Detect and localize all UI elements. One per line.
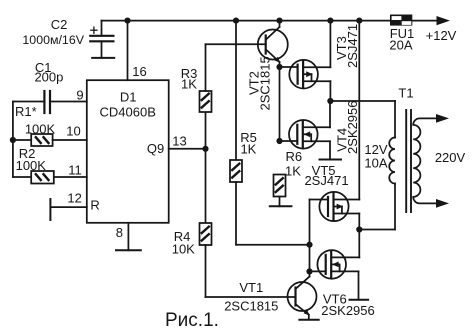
wire VT5 source to rail [358,21,360,200]
ground pin 8 [116,249,141,251]
wire VT6 gate [310,270,326,272]
resistor R4 [200,149,212,297]
label R2 value [16,146,82,178]
junction rail/R5 [233,18,239,24]
wire VT5 drain down [358,214,360,230]
svg-text:R6: R6 [285,149,302,164]
capacitor C1 [44,91,50,113]
label VT3 [334,24,360,68]
label R5 value [240,130,257,157]
svg-text:R: R [90,198,99,213]
transistor VT2 2SC1815 [258,21,288,141]
MOSFET VT3 2SJ471 [289,60,330,89]
wire C1 left to rail [13,101,45,103]
label C1 value [34,60,63,85]
wire VT3 drain down [329,81,331,101]
label VT1 [224,280,278,314]
svg-text:C2: C2 [51,17,68,32]
wire pin 16 [127,21,129,81]
ground R6 [270,205,292,207]
ground VT4 [320,159,342,161]
junction rail/VT2 collector [276,18,282,24]
wire pin 8 [127,223,129,251]
wire gate feed line [309,200,311,277]
wire +12V rail [102,20,391,22]
svg-text:2SK2956: 2SK2956 [345,101,360,155]
transistor VT1 2SC1815 [288,277,317,320]
label VT2 [247,56,273,110]
junction VT3 gate [276,64,282,70]
capacitor C2 [90,21,113,58]
junction rail/VT3 [327,18,333,24]
wire VT2 base [206,43,266,45]
svg-text:11: 11 [68,163,82,178]
svg-text:VT1: VT1 [239,280,263,295]
wire drain node to T1 primary bottom [359,229,395,231]
label VT4 [335,101,361,155]
svg-text:R1*: R1* [15,104,37,119]
ground bar pin 12 [49,199,51,220]
wire VT4 drain up [329,101,331,127]
svg-text:100K: 100K [25,122,56,137]
svg-text:10: 10 [66,123,80,138]
wire pin 12 [50,206,86,208]
junction R5/collector line [306,242,312,248]
svg-text:9: 9 [76,87,83,102]
wire VT6 drain up [358,230,360,258]
svg-text:T1: T1 [398,86,413,101]
svg-text:100K: 100K [16,158,47,173]
svg-text:Рис.1.: Рис.1. [165,310,219,331]
junction VT3/VT4 drains [327,98,333,104]
svg-text:2SC1815: 2SC1815 [258,56,273,110]
junction node Q9 [202,146,208,152]
svg-text:1K: 1K [240,142,256,157]
label R4 value [172,229,195,257]
IC D1 CD4060B [87,80,169,223]
resistor R2 [13,171,87,184]
wire drain node to T1 primary top [330,100,395,102]
ground VT1 [299,319,318,321]
label VT5 [304,163,348,188]
svg-text:1000м/16V: 1000м/16V [22,33,84,47]
ground C2 [92,57,114,59]
svg-text:16: 16 [132,64,146,79]
node +12V arrow [437,16,451,25]
svg-text:Q9: Q9 [147,141,164,156]
svg-text:220V: 220V [435,150,466,165]
svg-text:200p: 200p [34,70,63,85]
label T1 values [364,86,465,171]
svg-text:12: 12 [67,191,81,206]
junction rail/pin16 [124,18,130,24]
MOSFET VT5 2SJ471 [319,192,359,221]
svg-text:2SC1815: 2SC1815 [224,299,278,314]
wire Q9 pin 13 [169,148,206,150]
wire VT3 source to rail [329,21,331,68]
wire VT4 source down [329,141,331,159]
wire VT5 gate [310,199,329,201]
label FU1 value [389,26,456,53]
junction VT5/VT6 drains [356,226,362,232]
svg-text:CD4060B: CD4060B [100,105,156,120]
junction left rail / R1 [10,137,16,143]
svg-text:2SJ471: 2SJ471 [304,173,348,188]
label VT6 [321,292,375,319]
junction rail/VT5 [356,18,362,24]
svg-text:8: 8 [116,225,123,240]
svg-text:D1: D1 [120,90,137,105]
svg-text:10K: 10K [172,242,195,257]
fuse FU1 [390,15,412,26]
MOSFET VT6 2SK2956 [317,250,359,279]
wire VT3 gate [280,66,298,68]
transformer T1 [389,110,449,212]
wire VT1 base [206,296,296,298]
junction VT4 gate [276,138,282,144]
svg-text:10A: 10A [364,156,387,171]
wire left vertical rail [12,102,14,178]
svg-text:2SJ471: 2SJ471 [345,24,360,68]
svg-text:13: 13 [172,133,186,148]
svg-text:+12V: +12V [426,28,457,43]
label R1 value [15,104,81,138]
label R3 value [181,66,198,92]
label C2 value [22,17,84,47]
resistor R6 [274,175,286,207]
wire VT4 gate [280,140,298,142]
svg-text:2SK2956: 2SK2956 [321,303,375,318]
wire VT6 source down [358,271,360,299]
svg-text:20A: 20A [389,38,412,53]
junction VT6 gate [306,268,312,274]
svg-text:1K: 1K [285,164,301,179]
resistor R5 [230,21,242,245]
ground VT6 [350,299,369,301]
MOSFET VT4 2SK2956 [289,120,330,149]
wire R5 to VT1 collector node [236,244,310,246]
resistor R1 [13,134,87,146]
resistor R3 [200,44,212,149]
wire pin 9 [50,101,87,103]
label R6 value [285,149,302,179]
svg-text:1K: 1K [181,77,197,92]
